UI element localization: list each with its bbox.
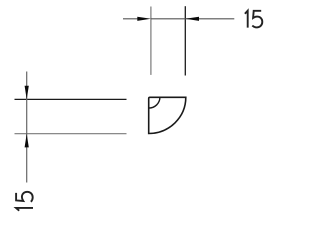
top dimension: left leader/tail line xyxy=(123,18,140,20)
small corner radius arc inside profile xyxy=(149,97,160,108)
top dimension: value label 15 xyxy=(245,11,262,28)
left dimension: up arrowhead at bottom extension line xyxy=(25,134,29,148)
left dimension: rotated value label 15 xyxy=(16,192,33,211)
left dimension: vertical dimension line with tails xyxy=(26,72,28,183)
left dimension: bottom extension line xyxy=(15,133,127,135)
quadrant moulding profile outline (15x15 quarter round) xyxy=(149,97,186,133)
top dimension: dimension line between extension lines xyxy=(151,18,185,20)
left dimension: down arrowhead at top extension line xyxy=(25,86,29,100)
top dimension: right leader/tail line to text xyxy=(185,18,234,20)
top dimension: left extension line xyxy=(150,7,152,75)
top dimension: right extension line xyxy=(184,6,186,75)
top dimension: left arrowhead pointing right xyxy=(137,17,151,21)
top dimension: right arrowhead pointing left xyxy=(185,17,199,21)
left dimension: top extension line xyxy=(15,98,127,100)
